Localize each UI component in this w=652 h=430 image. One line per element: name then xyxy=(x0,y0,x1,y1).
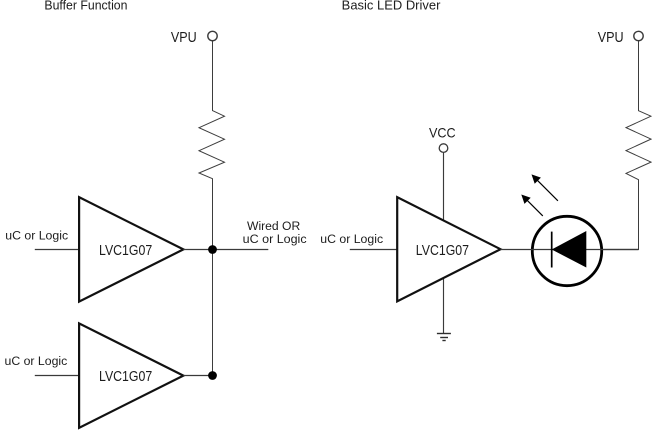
svg-text:uC or Logic: uC or Logic xyxy=(320,232,383,246)
svg-text:Buffer Function: Buffer Function xyxy=(44,0,127,13)
svg-text:VCC: VCC xyxy=(429,125,456,141)
svg-text:Basic LED Driver: Basic LED Driver xyxy=(342,0,441,13)
svg-text:LVC1G07: LVC1G07 xyxy=(416,242,469,259)
svg-text:LVC1G07: LVC1G07 xyxy=(99,242,152,259)
svg-text:VPU: VPU xyxy=(171,30,197,46)
svg-text:LVC1G07: LVC1G07 xyxy=(99,368,152,385)
svg-text:Wired OR: Wired OR xyxy=(247,219,300,233)
svg-text:uC or Logic: uC or Logic xyxy=(5,229,68,243)
svg-text:uC or Logic: uC or Logic xyxy=(5,354,68,368)
svg-text:uC or Logic: uC or Logic xyxy=(243,232,307,246)
svg-text:VPU: VPU xyxy=(598,30,624,46)
